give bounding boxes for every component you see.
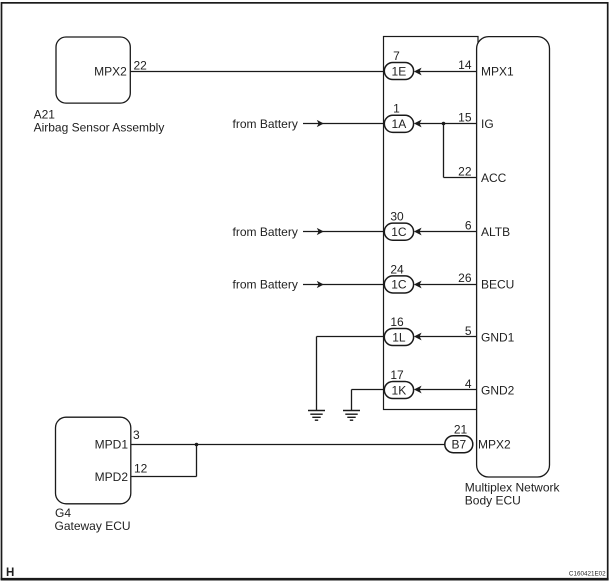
- svg-text:GND1: GND1: [481, 330, 515, 344]
- svg-text:6: 6: [465, 219, 472, 233]
- svg-text:12: 12: [134, 461, 148, 475]
- svg-text:MPD1: MPD1: [95, 438, 129, 452]
- svg-text:15: 15: [458, 111, 472, 125]
- svg-text:from Battery: from Battery: [233, 278, 298, 292]
- svg-text:1C: 1C: [391, 225, 407, 239]
- svg-text:1: 1: [393, 102, 400, 116]
- svg-text:G4: G4: [55, 506, 71, 520]
- svg-text:1K: 1K: [392, 383, 407, 397]
- svg-text:Gateway ECU: Gateway ECU: [55, 519, 131, 533]
- svg-text:5: 5: [465, 324, 472, 338]
- svg-text:Multiplex Network: Multiplex Network: [465, 481, 561, 495]
- svg-text:A21: A21: [34, 107, 56, 121]
- svg-text:30: 30: [390, 210, 404, 224]
- svg-text:MPX2: MPX2: [478, 438, 511, 452]
- svg-text:22: 22: [458, 164, 472, 178]
- svg-text:1A: 1A: [392, 117, 407, 131]
- svg-text:MPX1: MPX1: [481, 64, 514, 78]
- svg-text:GND2: GND2: [481, 383, 515, 397]
- svg-text:from Battery: from Battery: [233, 117, 298, 131]
- svg-text:MPX2: MPX2: [94, 64, 127, 78]
- svg-text:14: 14: [458, 58, 472, 72]
- svg-text:ALTB: ALTB: [481, 225, 510, 239]
- svg-text:17: 17: [390, 368, 404, 382]
- svg-text:22: 22: [134, 59, 148, 73]
- svg-text:1L: 1L: [392, 330, 406, 344]
- svg-text:1E: 1E: [392, 64, 407, 78]
- svg-text:BECU: BECU: [481, 278, 514, 292]
- svg-text:B7: B7: [451, 438, 466, 452]
- svg-text:1C: 1C: [391, 278, 407, 292]
- svg-text:C160421E02: C160421E02: [569, 570, 606, 577]
- svg-text:7: 7: [393, 49, 400, 63]
- svg-text:24: 24: [390, 262, 404, 276]
- svg-text:from Battery: from Battery: [233, 225, 298, 239]
- svg-text:21: 21: [454, 423, 468, 437]
- svg-text:MPD2: MPD2: [95, 470, 129, 484]
- svg-text:26: 26: [458, 271, 472, 285]
- svg-text:IG: IG: [481, 117, 494, 131]
- svg-text:H: H: [6, 567, 14, 579]
- svg-text:Airbag Sensor Assembly: Airbag Sensor Assembly: [34, 120, 165, 134]
- svg-text:4: 4: [465, 377, 472, 391]
- svg-text:16: 16: [390, 315, 404, 329]
- svg-text:Body ECU: Body ECU: [465, 494, 521, 508]
- svg-text:3: 3: [133, 428, 140, 442]
- svg-text:ACC: ACC: [481, 171, 507, 185]
